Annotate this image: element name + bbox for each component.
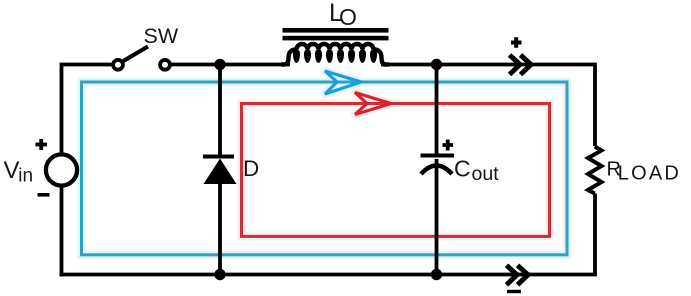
svg-text:LOAD: LOAD: [618, 163, 681, 185]
svg-text:V: V: [4, 157, 20, 184]
svg-text:in: in: [18, 166, 33, 187]
svg-text:O: O: [339, 4, 357, 30]
svg-text:out: out: [472, 163, 500, 185]
svg-text:D: D: [243, 156, 259, 181]
svg-text:C: C: [454, 156, 471, 182]
svg-text:SW: SW: [144, 24, 179, 48]
